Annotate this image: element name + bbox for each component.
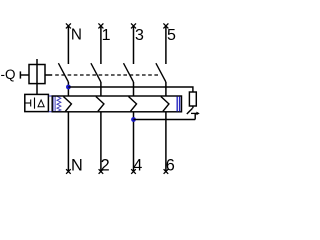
actuator lead terminal bar (19, 71, 21, 78)
svg-text:2: 2 (101, 156, 110, 174)
pole 1 primary winding chevron (96, 97, 104, 112)
secondary winding core bars (blue) (53, 96, 55, 112)
pole N lower wire (67, 112, 69, 172)
pole 1 top terminal x (98, 23, 103, 28)
residual current release box (25, 94, 49, 111)
pole N top terminal x (66, 23, 71, 28)
pole 3 mid wire (165, 82, 167, 96)
pole 3 top terminal x (163, 23, 168, 28)
svg-text:4: 4 (133, 156, 142, 174)
pole 2 mid wire (133, 82, 135, 96)
pole 2 switch blade (124, 63, 134, 82)
pole 2 lower wire (133, 112, 135, 172)
pole 1 upper wire (100, 26, 102, 64)
pole N bottom terminal x (66, 169, 71, 174)
pole N primary winding chevron (63, 97, 71, 112)
pole 2 top terminal x (131, 23, 136, 28)
svg-text:-Q: -Q (1, 67, 16, 82)
svg-text:5: 5 (167, 27, 176, 44)
pole 2 bottom terminal x (131, 169, 136, 174)
release contact symbol (25, 98, 35, 109)
mechanical linkage dashed line (55, 74, 159, 76)
pole 1 lower wire (100, 112, 102, 172)
pole 3 switch blade (156, 63, 166, 82)
test resistor R (189, 92, 196, 106)
actuator lead wire (20, 74, 29, 76)
test resistor lower stub (192, 106, 194, 108)
pole 3 primary winding chevron (161, 97, 169, 112)
transformer right end bars (blue) (177, 97, 179, 112)
pole 1 switch blade (91, 63, 101, 82)
test button blade (187, 108, 193, 114)
pole 3 lower wire (165, 112, 167, 172)
pole 2 junction dot (blue) (131, 117, 136, 122)
pole N upper wire (67, 26, 69, 64)
test circuit upper wire (68, 87, 192, 92)
pole 3 upper wire (165, 26, 167, 64)
pole 2 primary winding chevron (129, 97, 137, 112)
svg-text:1: 1 (102, 27, 111, 44)
pole N junction dot (blue) (66, 85, 71, 90)
svg-text:N: N (71, 27, 82, 44)
pole 1 mid wire (100, 82, 102, 96)
svg-text:6: 6 (166, 156, 175, 174)
secondary winding leads (blue) (49, 96, 58, 112)
secondary winding zigzag coil (blue) (57, 96, 61, 111)
test circuit lower wire (134, 119, 196, 121)
pole N switch blade (58, 63, 68, 82)
svg-text:3: 3 (135, 27, 144, 44)
pole 2 upper wire (133, 26, 135, 64)
test circuit riser (194, 113, 196, 119)
pole 3 bottom terminal x (164, 169, 169, 174)
actuator crossed box (29, 59, 52, 94)
pole 1 bottom terminal x (99, 169, 104, 174)
svg-text:N: N (71, 156, 83, 174)
test button actuation arrow (191, 112, 197, 114)
release delta triangle (38, 100, 44, 107)
pole N mid wire (67, 82, 69, 96)
summation current transformer body (52, 96, 181, 112)
